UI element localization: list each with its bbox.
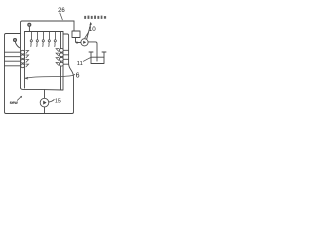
svg-text:11: 11 bbox=[77, 61, 83, 67]
svg-text:sew: sew bbox=[10, 100, 19, 105]
svg-text:26: 26 bbox=[58, 8, 65, 14]
svg-text:10: 10 bbox=[89, 26, 96, 33]
svg-text:15: 15 bbox=[55, 98, 61, 104]
svg-text:6: 6 bbox=[76, 72, 80, 79]
